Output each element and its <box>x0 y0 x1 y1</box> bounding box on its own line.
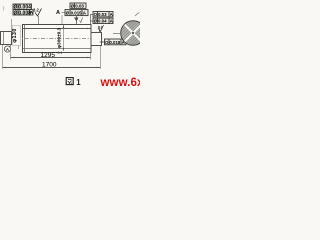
journal step line <box>3 32 5 45</box>
svg-text:+0.1: +0.1 <box>56 51 63 55</box>
caption hanzi tu <box>66 78 73 85</box>
circled mark bottom-left <box>4 46 10 52</box>
svg-text:3.2: 3.2 <box>33 8 39 13</box>
background <box>0 0 140 90</box>
svg-text:0.03: 0.03 <box>75 4 84 9</box>
svg-text:0.018: 0.018 <box>109 40 121 45</box>
svg-text:www.6x: www.6x <box>100 77 141 89</box>
phi130 label box <box>12 26 20 46</box>
svg-text:1: 1 <box>76 78 81 87</box>
svg-text:Ø: Ø <box>94 19 98 24</box>
bore arrow right <box>87 28 90 30</box>
left journal <box>1 32 12 45</box>
tolerance frame box TC row2 <box>65 10 88 16</box>
tolerance frame box TL row2 <box>13 10 33 15</box>
centerline <box>0 38 104 40</box>
dim 1700 line <box>3 67 101 69</box>
datum leader to body <box>61 15 63 24</box>
tolerance frame box TL row1 <box>13 4 32 9</box>
svg-text:0.015: 0.015 <box>71 11 83 16</box>
leader from roughness to body <box>38 16 40 24</box>
right journal <box>91 33 102 46</box>
faint smudge top-left <box>3 6 6 11</box>
end view circle outline <box>121 21 146 46</box>
white cross bands <box>121 21 145 45</box>
svg-text:A: A <box>56 10 60 16</box>
dim 1295 extension lines <box>10 45 12 60</box>
connector lines TR boxes <box>91 15 94 25</box>
dim 1700 extension lines <box>2 45 4 69</box>
dim 1295 line <box>11 57 91 59</box>
svg-text:A: A <box>110 19 113 24</box>
leader of right-middle box <box>100 41 105 43</box>
svg-text:O: O <box>105 40 109 45</box>
tolerance frame box TR row1 <box>93 12 113 17</box>
svg-text:A: A <box>110 12 113 17</box>
bore line lower <box>23 48 91 50</box>
extension above journal <box>11 19 13 32</box>
svg-text:0.04: 0.04 <box>98 19 107 24</box>
dim phi130 vertical line <box>18 26 20 49</box>
svg-text:Ø: Ø <box>71 4 75 9</box>
tolerance frame box TC row1 <box>70 3 86 8</box>
svg-text:0.03: 0.03 <box>98 12 107 17</box>
svg-text:φ300±0.3: φ300±0.3 <box>57 27 63 48</box>
tolerance frame box right-middle <box>105 39 127 45</box>
faint mark top-right <box>135 13 140 17</box>
tolerance frame box TR row2 <box>93 18 113 23</box>
leader arrow to journal top <box>99 26 101 33</box>
datum flag on body <box>76 16 78 24</box>
leader line into circle <box>113 33 121 35</box>
dim phi300 vertical line <box>63 25 65 51</box>
body left face inner line <box>24 25 26 53</box>
bore line upper <box>23 28 91 30</box>
roller body <box>23 25 92 53</box>
svg-text:1700: 1700 <box>42 62 57 69</box>
svg-text:1295: 1295 <box>41 52 56 59</box>
svg-text:Ø: Ø <box>14 10 18 16</box>
svg-text:O: O <box>94 12 98 17</box>
svg-text:φ130: φ130 <box>12 28 18 42</box>
svg-text:Ø: Ø <box>66 11 70 16</box>
bore arrow left <box>24 28 27 30</box>
